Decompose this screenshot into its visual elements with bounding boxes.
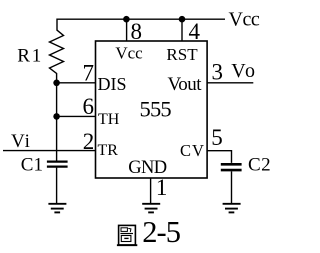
svg-text:DIS: DIS [98, 74, 127, 94]
svg-text:5: 5 [211, 125, 223, 150]
wire pin 6 TH [57, 115, 96, 117]
node junction pin4 on Vcc rail [179, 16, 186, 23]
svg-text:C2: C2 [248, 155, 271, 176]
svg-text:555: 555 [140, 97, 172, 122]
node junction TH [53, 113, 60, 120]
wire pin 2 TR input [3, 150, 96, 152]
ground (C1) [48, 204, 66, 213]
op-amp U1 555 IC box [96, 41, 208, 178]
wire pin 5 CV to C2 [207, 151, 231, 163]
svg-text:C1: C1 [21, 154, 43, 175]
wire pin 3 Vout output [207, 82, 253, 84]
svg-text:Vcc: Vcc [115, 44, 143, 63]
svg-text:RST: RST [166, 45, 198, 64]
wire C1 to ground [56, 168, 58, 204]
svg-text:TR: TR [98, 142, 119, 159]
svg-text:7: 7 [83, 61, 95, 86]
wire C2 to ground [231, 171, 233, 203]
svg-text:2-5: 2-5 [142, 215, 180, 249]
svg-text:6: 6 [82, 94, 94, 119]
wire pin 7 DIS [57, 82, 96, 84]
ground (pin 1) [142, 204, 160, 213]
caption character 圖 (drawn) [117, 225, 137, 245]
svg-text:Vo: Vo [231, 60, 257, 82]
svg-text:CV: CV [180, 141, 205, 160]
svg-text:TH: TH [98, 111, 120, 128]
ground (C2) [223, 204, 241, 213]
svg-text:Vi: Vi [11, 131, 31, 152]
svg-text:Vcc: Vcc [229, 8, 260, 30]
capacitor C2 [221, 164, 242, 170]
wire pin 1 GND stub [150, 178, 152, 204]
capacitor C1 [47, 162, 68, 167]
svg-text:Vout: Vout [168, 74, 203, 95]
node junction pin8 on Vcc rail [123, 16, 130, 23]
wire pin 4 stub [181, 19, 183, 41]
svg-text:2: 2 [83, 129, 95, 154]
node junction R1/DIS [53, 80, 60, 87]
svg-text:R1: R1 [17, 45, 43, 66]
wire pin 8 stub [126, 19, 128, 41]
wire left vertical DIS-TH-TR-C1 [56, 83, 58, 161]
wire Vcc rail (top) [57, 19, 225, 30]
svg-text:1: 1 [156, 175, 168, 200]
resistor R1 [50, 30, 64, 83]
svg-text:3: 3 [212, 60, 224, 85]
